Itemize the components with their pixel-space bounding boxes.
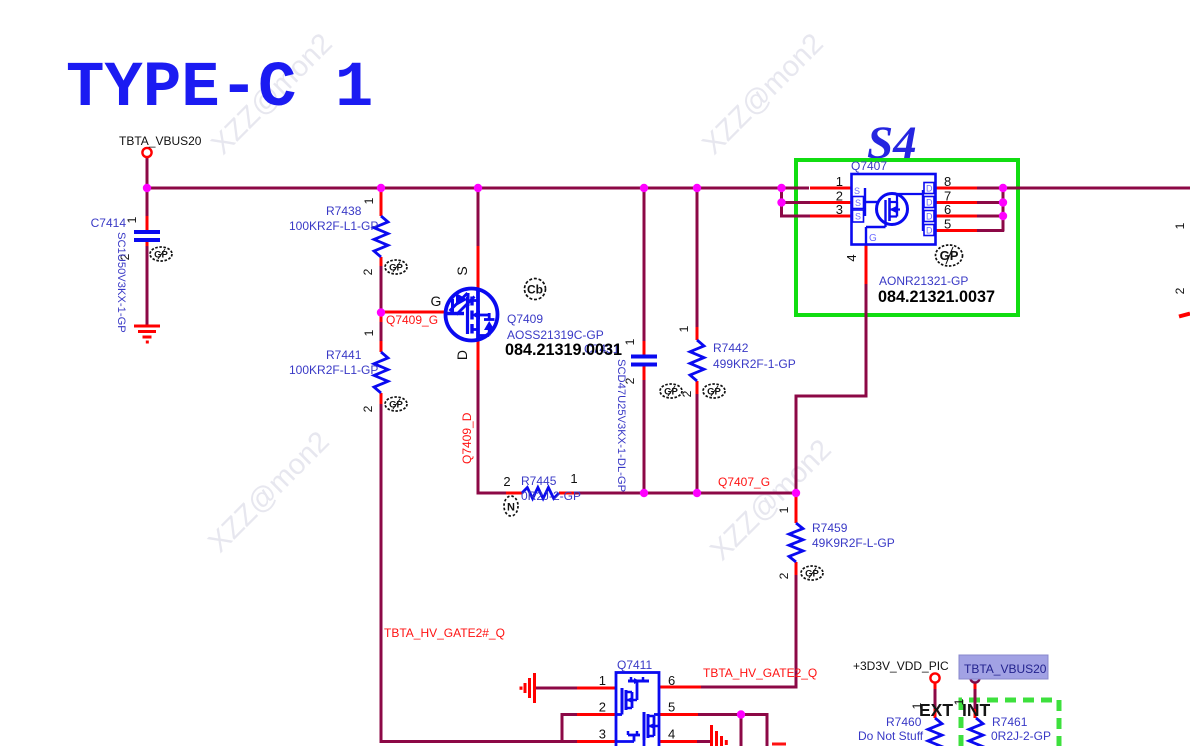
junction node 14 [792,489,800,497]
svg-text:+3D3V_VDD_PIC: +3D3V_VDD_PIC [853,659,949,673]
pin 2 right edge [1173,287,1187,294]
GP mark C7431 [660,384,682,398]
svg-text:100KR2F-L1-GP: 100KR2F-L1-GP [289,219,378,233]
svg-text:5: 5 [944,217,951,232]
label R7459 [812,521,848,535]
label C7431 [584,342,620,356]
svg-text:499KR2F-1-GP: 499KR2F-1-GP [713,357,796,371]
wire Q7409 source from bus [477,190,480,247]
svg-text:4: 4 [844,254,859,261]
svg-text:R7461: R7461 [992,715,1028,729]
svg-text:R7441: R7441 [326,348,362,362]
svg-text:R7459: R7459 [812,521,848,535]
junction node 15 [737,710,745,718]
pin stub Q7407-2 [810,201,851,204]
pin 2 C7431 [623,377,637,384]
label R7441 value [289,363,378,377]
wire TBTA_VBUS20 INT drop [974,689,977,709]
pin 3 Q7407 [836,202,843,217]
label R7442 value [713,357,796,371]
section label S4 [867,117,917,169]
pin 6 Q7407 [944,202,951,217]
wire R7459 lower to Q7411 pin6 [701,575,798,689]
pin stub R7441-1 [380,313,383,352]
net Q7407_G [718,475,770,489]
pin 1 Q7407 [836,174,843,189]
label R7459 value [812,536,895,550]
pin stub Q7407-5 [936,229,977,232]
svg-text:G: G [431,293,442,309]
pin 2 R7459 [777,572,791,579]
resistor R7445 [522,488,559,499]
pin 1 right edge [1173,222,1187,229]
pin stub Q7407-3 [810,215,851,218]
resistor R7460 [928,718,942,746]
pin 7 Q7407 [944,189,951,204]
pin 2 Q7407 [836,189,843,204]
pin stub R7460 [934,682,937,718]
svg-text:S: S [454,266,470,275]
N mark R7445 [504,496,518,516]
GP mark Q7407 [936,245,963,266]
pin 4 Q7411 [668,727,675,742]
label R7461 value [991,729,1051,743]
svg-text:TBTA_VBUS20: TBTA_VBUS20 [119,134,202,148]
green dashed box around R7461 [961,700,1059,746]
svg-text:R7445: R7445 [521,474,557,488]
svg-text:1: 1 [677,325,691,332]
svg-text:G: G [869,233,877,244]
pin stub R7445-1 [559,492,575,495]
pin 2 Q7411 [599,700,606,715]
svg-text:GP: GP [940,248,959,263]
wire C7431 upper [643,190,646,342]
junction node 7 [777,198,785,206]
svg-text:Cb: Cb [527,283,543,297]
svg-text:2: 2 [777,572,791,579]
pin stub C7431-2 [643,366,646,380]
resistor R7459 [789,523,803,562]
wire Q7411 pin4 to ground [697,740,710,743]
pin stub R7442-2 [696,381,699,394]
svg-text:GP: GP [389,262,403,273]
label C7414 value [115,232,127,333]
pin stub Q7409 S [477,246,480,289]
watermark 1 [205,27,338,160]
GP mark R7459 [801,566,823,580]
wire R7445 to Q7407_G node [575,492,797,495]
junction node 12 [640,489,648,497]
svg-text:GP: GP [664,386,678,397]
pin stub R7438-1 [380,190,383,216]
svg-text:6: 6 [944,202,951,217]
svg-text:8: 8 [944,174,951,189]
svg-text:1: 1 [362,329,376,336]
svg-text:S: S [855,198,861,208]
svg-text:Q7411: Q7411 [617,658,652,672]
label Q7409 value [507,328,604,342]
svg-text:S: S [855,212,861,222]
junction node 6 [777,184,785,192]
pin 2 R7438 [361,268,375,275]
label Q7409 [507,312,543,326]
terminal +3D3V_VDD_PIC [930,673,939,682]
pin 1 R7445 [570,471,577,486]
wire Q7411 pin2 branch [562,713,577,742]
svg-text:1: 1 [910,702,924,709]
svg-text:2: 2 [599,700,606,715]
svg-text:Q7407_G: Q7407_G [718,475,770,489]
junction node 3 [474,184,482,192]
net TBTA_HV_GATE2_Q [703,666,817,680]
svg-text:TYPE-C 1: TYPE-C 1 [66,53,373,125]
pin stub R7461 [974,682,977,718]
svg-text:C7414: C7414 [91,216,127,230]
pin 2 R7445 [503,474,510,489]
svg-text:AOSS21319C-GP: AOSS21319C-GP [507,328,604,342]
svg-text:2: 2 [503,474,510,489]
wire C7414 lower to ground [146,246,149,325]
pin 1 R7461 [952,698,966,705]
svg-text:1: 1 [836,174,843,189]
pin 2 C7414 [118,253,132,260]
pin stub R7459-2 [795,562,798,575]
pin 2 R7441 [361,405,375,412]
pin stub C7431-1 [643,341,646,355]
watermark 3 [202,425,335,558]
wire S4 right pin bar [977,188,1004,232]
pin 1 R7441 [362,329,376,336]
svg-text:R7442: R7442 [713,341,749,355]
svg-text:R7460: R7460 [886,715,922,729]
svg-text:2: 2 [361,268,375,275]
pin 1 C7431 [623,338,637,345]
svg-text:5: 5 [668,700,675,715]
svg-text:3: 3 [599,727,606,742]
svg-text:1: 1 [125,216,139,223]
svg-text:S: S [854,186,860,196]
pin stub gate Q7409 [383,311,445,314]
net TBTA_HV_GATE2#_Q [384,626,505,640]
label R7460 value [858,729,924,743]
label +3D3V_VDD_PIC [853,659,949,673]
transistor Q7407 [852,174,936,245]
svg-text:GP: GP [389,399,403,410]
pin stub R7441-2 [380,393,383,404]
pin 8 Q7407 [944,174,951,189]
pin stub C7414-2 [146,240,149,246]
net box TBTA_VBUS20 [959,655,1048,679]
svg-text:6: 6 [668,673,675,688]
pin 3 Q7411 [599,727,606,742]
svg-text:TBTA_VBUS20: TBTA_VBUS20 [964,662,1047,676]
pin stub Q7411-6 [659,686,701,689]
svg-text:1: 1 [599,673,606,688]
bottom edge red fragment [772,743,786,746]
svg-text:1: 1 [1173,222,1187,229]
junction node 9 [999,198,1007,206]
svg-text:D: D [926,184,933,194]
svg-text:INT: INT [962,700,991,720]
label INT [962,700,991,720]
pin 1 R7438 [362,197,376,204]
svg-text:GP: GP [707,386,721,397]
wire S4 left pins drop [780,188,810,218]
svg-text:1: 1 [623,338,637,345]
svg-text:0R2J-2-GP: 0R2J-2-GP [521,489,581,503]
pin stub Q7407-7 [936,201,977,204]
svg-text:2: 2 [361,405,375,412]
capacitor C7431 [631,357,657,365]
pin stub R7438-2 [380,257,383,266]
junction node 2 [377,184,385,192]
label R7442 [713,341,749,355]
ground C7414 [134,326,160,342]
junction node 1 [143,184,151,192]
wire R7441 pin1 link [380,322,383,341]
svg-text:1: 1 [952,698,966,705]
green box around S4/Q7407 [796,160,1018,315]
label C7431 value [615,359,627,492]
svg-text:Q7409_D: Q7409_D [460,412,474,464]
value 084.21319.0031 [505,341,622,359]
svg-text:SC1U50V3KX-1-GP: SC1U50V3KX-1-GP [115,232,127,333]
pin stub C7414-1 [146,216,149,231]
label TBTA_VBUS20 bottom [964,662,1047,676]
Cb mark Q7409 [525,279,546,300]
title TYPE-C 1 [66,53,373,125]
svg-text:084.21319.0031: 084.21319.0031 [505,341,622,359]
wire +3D3V_VDD_PIC drop [934,689,937,709]
svg-text:Q7409: Q7409 [507,312,543,326]
svg-text:2: 2 [1173,287,1187,294]
terminal TBTA_VBUS20 bottom [970,673,979,682]
net Q7409_D [460,412,474,464]
svg-text:1: 1 [362,197,376,204]
wire main VBUS bus [147,187,1190,190]
svg-text:2: 2 [680,390,694,397]
pin 2 R7442 [680,390,694,397]
svg-text:AONR21321-GP: AONR21321-GP [879,274,968,288]
svg-text:D: D [926,198,933,208]
ground Q7411 pin4 (right) [712,725,727,746]
pin 5 Q7411 [668,700,675,715]
pin stub Q7407-8 [936,187,977,190]
svg-text:D: D [926,212,933,222]
transistor Q7409 [446,289,498,341]
label R7441 [326,348,362,362]
pin stub Q7411-5 [659,713,698,716]
label R7445 [521,474,557,488]
svg-text:D: D [926,226,933,236]
svg-text:0R2J-2-GP: 0R2J-2-GP [991,729,1051,743]
label R7438 [326,204,362,218]
label Q7411 [617,658,652,672]
pin 6 Q7411 [668,673,675,688]
wire R7442 upper [696,190,699,328]
GP mark C7414 [150,247,172,261]
GP mark R7438 [385,260,407,274]
resistor R7442 [690,340,704,381]
svg-text:EXT: EXT [919,700,953,720]
pin stub R7459-1 [795,494,798,523]
wire TBTA_VBUS20 terminal drop [146,157,149,216]
label R7438 value [289,219,378,233]
ground Q7411 pin1 (left) [521,673,535,703]
pin 1 C7414 [125,216,139,223]
svg-text:Q7407: Q7407 [851,159,887,173]
label EXT [919,700,953,720]
svg-text:TBTA_HV_GATE2#_Q: TBTA_HV_GATE2#_Q [384,626,505,640]
svg-text:D: D [454,350,470,360]
junction node 4 [640,184,648,192]
pin D Q7409 [454,350,470,360]
pin stub R7442-1 [696,327,699,340]
pin 4 Q7407 [844,254,859,261]
GP mark R7442 [703,384,725,398]
pin 1 R7442 [677,325,691,332]
junction node 8 [999,184,1007,192]
pin G Q7409 [431,293,442,309]
terminal TBTA_VBUS20 top [142,148,151,157]
label Q7407 value [879,274,968,288]
svg-text:Do Not Stuff: Do Not Stuff [858,729,924,743]
wire Q7411 pin1 to ground [536,687,577,690]
pin stub R7445-2 [506,492,522,495]
capacitor C7414 [134,232,160,240]
value 084.21321.0037 [878,288,995,306]
wire Q7407 gate pin4 path [796,284,866,494]
wire Q7409 drain to R7445 [477,370,507,493]
resistor R7438 [374,216,388,257]
watermark 4 [704,433,837,566]
transistor Q7411 [616,673,659,746]
svg-text:49K9R2F-L-GP: 49K9R2F-L-GP [812,536,895,550]
junction node 5 [693,184,701,192]
wire pin5 junction drop [740,715,743,746]
wire R7438 to Q7409_G node [380,266,383,313]
svg-text:Q7409_G: Q7409_G [386,313,438,327]
resistor R7441 [374,352,388,393]
pin stub Q7407-6 [936,215,977,218]
svg-text:3: 3 [836,202,843,217]
svg-text:TBTA_HV_GATE2_Q: TBTA_HV_GATE2_Q [703,666,817,680]
label R7445 value [521,489,581,503]
svg-text:4: 4 [668,727,675,742]
svg-text:GP: GP [805,568,819,579]
wire R7442 lower [696,394,699,493]
pin stub Q7411-1 [577,687,616,690]
label R7461 [992,715,1028,729]
pin stub Q7411-4 [659,740,697,743]
GP mark R7441 [385,397,407,411]
svg-text:GP: GP [154,249,168,260]
right edge red mark [1179,314,1190,317]
label Q7407 [851,159,887,173]
junction node 10 [999,212,1007,220]
pin stub Q7409 D [477,340,480,370]
pin 5 Q7407 [944,217,951,232]
pin 1 Q7411 [599,673,606,688]
net Q7409_G [386,313,438,327]
wire C7431 lower [643,380,646,493]
svg-text:100KR2F-L1-GP: 100KR2F-L1-GP [289,363,378,377]
label R7460 [886,715,922,729]
wire TBTA_HV_GATE2#_Q vertical [380,404,578,742]
svg-text:1: 1 [777,506,791,513]
pin stub Q7411-3 [577,740,616,743]
resistor R7461 [969,718,983,746]
junction node 13 [693,489,701,497]
pin 1 R7459 [777,506,791,513]
pin stub Q7411-2 [577,713,616,716]
wire Q7411 pin5 branch [698,713,769,746]
svg-text:084.21321.0037: 084.21321.0037 [878,288,995,306]
svg-text:R7438: R7438 [326,204,362,218]
label C7414 [91,216,127,230]
label TBTA_VBUS20 top [119,134,202,148]
junction node 11 [377,308,385,316]
svg-text:SCD47U25V3KX-1-DL-GP: SCD47U25V3KX-1-DL-GP [615,359,627,492]
watermark 2 [696,27,829,160]
pin S Q7409 [454,266,470,275]
pin stub Q7407-1 [810,187,851,190]
svg-text:1: 1 [570,471,577,486]
pin 1 R7460 [910,702,924,709]
pin stub Q7407-4 [865,245,868,284]
svg-text:N: N [507,502,515,514]
